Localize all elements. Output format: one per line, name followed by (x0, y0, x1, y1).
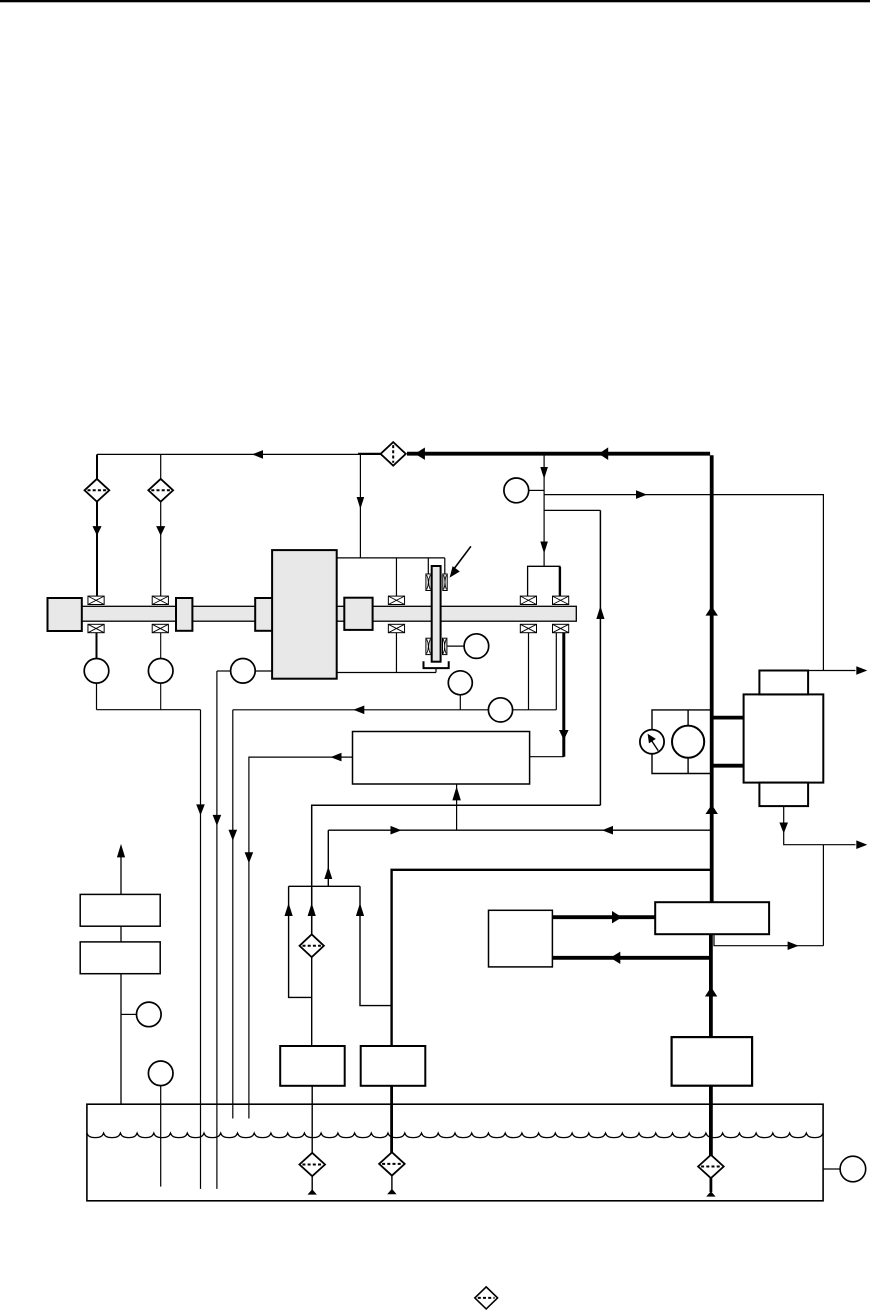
bearing B1 upper (88, 596, 104, 604)
wire: supply header thin section to left bearings (97, 453, 381, 455)
pressure gauge PI2 with pointer (640, 730, 664, 754)
wire: drop to bearing B3 (395, 558, 397, 597)
wire: gear drain line to gearbox (255, 670, 272, 672)
thermometer TI4 (thrust pad) (464, 634, 489, 659)
arrow: cooling water out (856, 666, 867, 675)
orifice RO1 (dashed diamond) (85, 479, 110, 502)
wire: P1 suction (311, 1086, 313, 1154)
arrow: flow down bearing No.2 feed (156, 526, 165, 536)
thrust collar plate (432, 566, 441, 662)
suction strainer S2 (dashed diamond) (379, 1152, 405, 1175)
oil level wavy line (87, 1133, 823, 1138)
arrow: flow down gear unit feed (357, 497, 365, 509)
pump/motor unit M1 (rectangle) (655, 902, 769, 934)
wire: instrument line to cooler top (544, 495, 823, 671)
wire: right drain header (233, 709, 557, 711)
wire: cooler bypass drop (822, 845, 824, 946)
gauge station frame (652, 710, 712, 730)
arrow: flow left into M2 (610, 952, 620, 964)
wire: bearing B5 control-oil tap (thick) (562, 633, 565, 757)
wire: B2 drain lower stub (160, 683, 162, 710)
wire: relief station riser to supply run (327, 830, 329, 886)
vent filter upper box (80, 894, 160, 926)
arrow: flow up into control tank (452, 786, 461, 800)
thrust bearing oil catch bracket (424, 661, 449, 668)
arrow: flow up relief riser (324, 867, 332, 880)
wire: drop to thrust pad right (444, 558, 446, 574)
arrow: flow left on thin supply header (252, 450, 263, 459)
thermometer TI1 (bearing B1 drain) (84, 659, 109, 684)
wire: control tank supply run (328, 829, 711, 831)
arrow: overflow flow down (245, 852, 254, 863)
arrow: drain flow left toward tank (353, 706, 364, 715)
thrust pad lower-left (426, 638, 431, 654)
wire: thrust/journal bearing feed drop (543, 454, 545, 567)
control oil tank (long rectangle) (353, 732, 530, 785)
callout arrow to thrust bearing (454, 546, 471, 569)
wire: control oil run to relief station (312, 805, 601, 934)
pressure gauge PI1 (504, 478, 529, 503)
wire: M2 to M1 coupling (thick) (552, 915, 656, 919)
arrow: flow up control oil riser (596, 606, 604, 619)
wire: DC1 stub (823, 1168, 840, 1170)
wire: LG1 dip tube (160, 1086, 162, 1187)
arrow: flow down cooler drain (779, 823, 788, 834)
strainer S2 foot (391, 1176, 393, 1190)
wire: B5 tap run into governor tank (530, 756, 564, 758)
wire: catch bracket drain stub (435, 668, 437, 672)
strainer S3 foot (710, 1178, 713, 1192)
drain connection DC1 on tank shell (840, 1156, 866, 1182)
arrow: flow up main riser (upper) (706, 606, 718, 616)
arrow: supply run flow right (391, 826, 402, 835)
wire: P2 suction (thick) (390, 1086, 393, 1153)
suction strainer S3 (dashed diamond) (698, 1155, 724, 1178)
thrust pad lower-right (443, 638, 447, 654)
shaft: left stub end block (48, 598, 82, 631)
wire: control oil riser (599, 510, 601, 805)
arrow: supply run flow left (602, 826, 613, 835)
arrow: casing drain flow right (788, 941, 799, 950)
arrow: flow right on instrument line (636, 490, 647, 499)
wire: main line to M2 (thick) (552, 956, 711, 960)
arrow: flow right M2-M1 (612, 911, 622, 923)
wire: vent pipe lower (120, 974, 122, 1105)
wire: control tank overflow to tank (249, 757, 353, 1118)
arrow: flow left on supply header (thick) (415, 448, 425, 460)
wire: supply header medium stub left of filter F1 (358, 453, 382, 455)
wire: M1 casing drain (714, 934, 823, 946)
wire: bearing B5 drain stub (555, 633, 557, 710)
wire: relief bypass leg (289, 886, 312, 997)
wire: gear drain line left of circle (217, 670, 231, 672)
wire: TI5 drain stem (459, 695, 461, 710)
wire: supply header to bearings (thick) (407, 452, 710, 456)
gauge station inner leg lower (687, 758, 689, 774)
arrow: cooler drain out right (856, 840, 867, 849)
filter F1 on supply header (vertical dashed diamond) (381, 442, 406, 466)
wire: drop to thrust pad left (427, 558, 429, 574)
wire: auxiliary pump discharge (thick) (392, 870, 712, 1046)
oil cooler body (744, 694, 824, 782)
relief valve RV1 (dashed diamond) (300, 934, 324, 957)
wire: bearing B4 drain stub (528, 633, 530, 710)
page top border rule (0, 0, 870, 2)
emergency pump P3 (box) (672, 1037, 753, 1086)
strainer S1 foot (311, 1176, 313, 1190)
oil reservoir tank (87, 1104, 823, 1201)
arrow: flow down bearing feed (upper) (540, 467, 548, 479)
arrow: flow down gear drain (213, 815, 222, 826)
gearbox / driver housing (272, 550, 337, 679)
arrow: flow down right drain (229, 830, 238, 841)
arrow: flow up main riser (middle) (706, 805, 718, 815)
electric motor box M2 (489, 910, 553, 967)
wire: control oil line from bearing feed (544, 509, 600, 511)
wire: main pump leg upper (311, 886, 313, 934)
oil cooler top cap (759, 671, 808, 695)
wire: gearbox top distribution header (337, 557, 445, 559)
arrow: overflow flow left (331, 753, 342, 762)
arrow: flow up standby leg (356, 903, 364, 916)
wire: PI3 stub (121, 1013, 137, 1015)
arrow: flow left on supply header east (thick) (599, 447, 609, 460)
thrust pad upper-left (426, 574, 431, 591)
wire: bearing B3 drain stub (395, 633, 397, 673)
wire: P3 discharge (thick) (709, 934, 713, 1037)
wire: bearing No.2 feed drop (160, 454, 162, 596)
wire: B1 drain upper stub (96, 633, 98, 659)
arrow: flow down bearing No.1 feed (92, 526, 101, 536)
shaft: coupling hub right of gearbox (344, 598, 372, 630)
wire: vent pipe top (120, 856, 122, 894)
wire: control tank bottom riser (456, 784, 458, 830)
bearing B1 lower (88, 624, 104, 632)
bearing B3 lower (388, 624, 404, 632)
wire: gauge PI1 stub (529, 489, 544, 491)
wire: TI4 stub to pad (447, 645, 464, 647)
wire: B1 drain lower stub (96, 683, 98, 710)
oil cooler bottom cap (759, 783, 808, 807)
bearing housing cap right thick leg (559, 567, 561, 597)
gauge station frame lower (652, 754, 712, 774)
arrow: flow down left drain (196, 804, 205, 815)
bearing B5 upper (553, 596, 569, 604)
arrow: flow down bearing feed (lower) (540, 542, 548, 554)
sight glass SG1 on drain header (488, 698, 512, 722)
wire: main pump leg lower (311, 957, 313, 1046)
shaft: coupling hub left of gearbox (255, 598, 273, 631)
bearing B2 upper (152, 596, 168, 604)
wire: left drain downcomer to tank (200, 710, 202, 1189)
wire: left drain header (97, 709, 201, 711)
wire: vent pipe middle (120, 926, 122, 942)
wire: bearing No.1 feed drop (96, 454, 98, 596)
main oil pump P1 (box) (280, 1046, 345, 1086)
wire: thrust area drain run (337, 672, 436, 674)
wire: relief station header (289, 885, 360, 887)
gauge station inner leg upper (687, 710, 689, 726)
bearing B4 lower (520, 624, 536, 632)
wire: cooling water drain leg (784, 806, 856, 845)
arrow: vent to atmosphere (117, 844, 125, 858)
bearing B5 lower (553, 624, 569, 632)
thermometer TI3 (gear drain) (231, 659, 256, 684)
thermometer TI6 (672, 726, 704, 758)
bearing B2 lower (152, 624, 168, 632)
bearing housing cap right (528, 566, 560, 596)
level gauge LG1 on tank (148, 1061, 173, 1086)
shaft: collar left (176, 598, 192, 631)
wire: main pump discharge riser (thick) (710, 455, 714, 902)
thrust pad upper-right (443, 574, 447, 591)
wire: cooling water outlet line (759, 670, 855, 672)
auxiliary oil pump P2 (box) (361, 1046, 426, 1086)
wire: gear unit feed drop (359, 454, 361, 558)
legend symbol: strainer diamond (475, 1287, 498, 1309)
vent filter lower box (80, 942, 160, 974)
arrow: flow up P3 discharge (705, 987, 717, 997)
wire: cooler inlet stub upper (thick) (712, 716, 745, 720)
arrow: flow up relief bypass (285, 903, 293, 916)
wire: cooler inlet stub lower (thick) (712, 764, 745, 768)
bearing B4 upper (520, 596, 536, 604)
thermometer TI2 (bearing B2 drain) (148, 659, 173, 684)
wire: B2 drain upper stub (160, 633, 162, 659)
thermometer TI5 (thrust drain) (448, 671, 472, 695)
pressure gauge PI3 on vent (137, 1002, 162, 1027)
arrow: flow down B5 tap (559, 730, 569, 740)
orifice RO2 (dashed diamond) (148, 479, 173, 502)
wire: right drain downcomer to tank (232, 710, 234, 1119)
wire: P3 suction (thick) (709, 1086, 713, 1156)
arrow: flow up main pump leg (308, 903, 316, 916)
suction strainer S1 (dashed diamond) (299, 1153, 325, 1176)
wire: gear drain downcomer to tank (216, 671, 218, 1189)
shaft: main shaft bar (82, 606, 577, 621)
wire: standby pump thin leg (360, 886, 392, 1005)
bearing B3 upper (388, 596, 404, 604)
